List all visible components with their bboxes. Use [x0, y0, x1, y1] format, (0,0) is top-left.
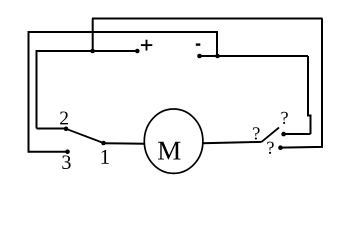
wire: right mid vertical (with small jog) [308, 56, 311, 134]
motor M circle [144, 109, 203, 173]
wire: to contact 3 [29, 151, 68, 153]
wire: motor to right switch pivot [203, 142, 262, 143]
battery - label [196, 43, 201, 45]
wire: right outer vertical down to lower ? contact [281, 19, 323, 148]
wire: to upper ? contact [284, 133, 311, 135]
wire: to contact 2 [37, 128, 67, 130]
label ? near right switch blade [253, 127, 259, 139]
label 3 [62, 155, 70, 169]
node: junction on - branch [215, 54, 220, 59]
wire: - terminal to right side [200, 55, 309, 57]
label ? near lower contact [267, 142, 273, 154]
wire: inner horizontal feeding + terminal [37, 51, 138, 129]
node: contact 2 [64, 127, 69, 132]
node: switch pivot 1 [101, 141, 106, 146]
switch blade: right switch (open) [262, 128, 280, 142]
label ? near upper contact [281, 112, 287, 124]
motor M letter [158, 142, 180, 160]
node: battery + terminal [135, 49, 140, 54]
wire: second horizontal (left corner to - branch) [29, 32, 218, 56]
switch blade: left switch (closed on contact 2) [66, 129, 104, 143]
node: upper ? contact [281, 132, 286, 137]
wire: top horizontal from + branch to right side [92, 18, 323, 20]
wire: vertical drop from top wire to + node [92, 19, 94, 52]
wire: left outer vertical [28, 31, 30, 153]
label 2 [60, 112, 68, 125]
label 1 [102, 150, 109, 164]
node: battery - terminal [197, 54, 202, 59]
node: contact 3 [65, 150, 70, 155]
node: junction on + feed wire [90, 49, 95, 54]
node: lower ? contact [278, 145, 283, 150]
battery + label [141, 40, 152, 51]
wire: pivot to motor [104, 142, 145, 145]
